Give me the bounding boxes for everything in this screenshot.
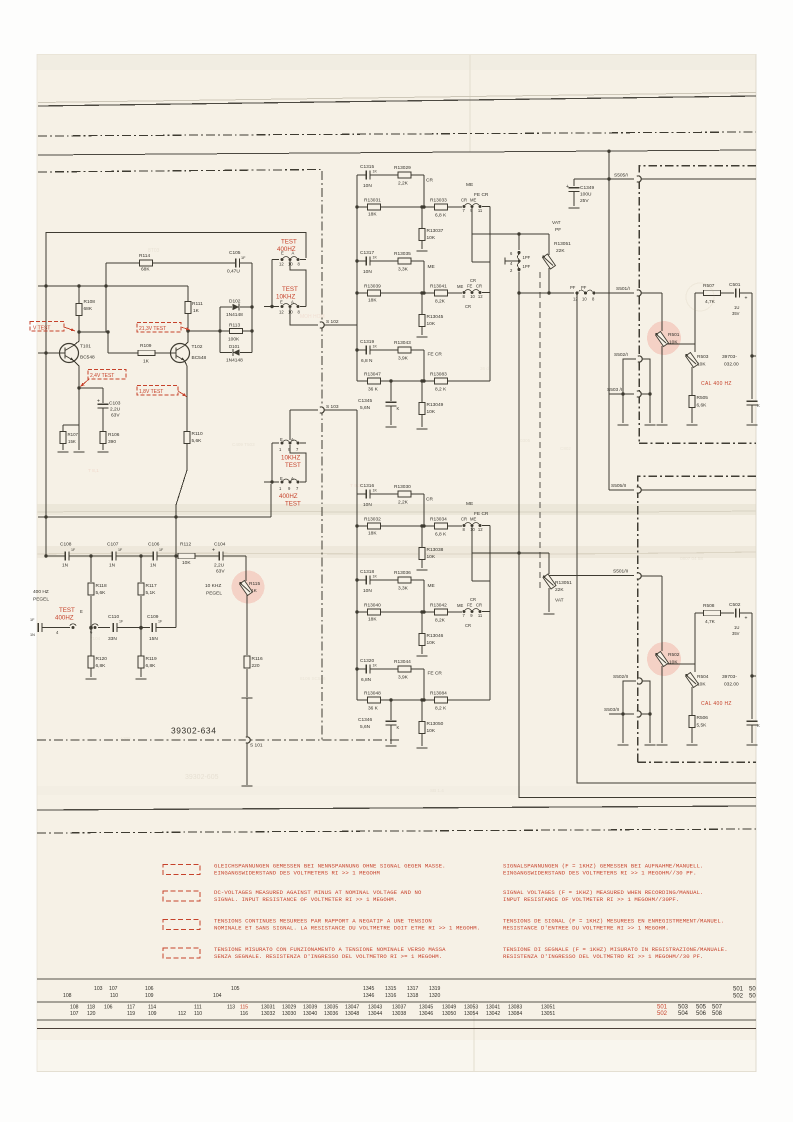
wire to PF 12-10-8 contacts — [519, 292, 574, 294]
svg-text:S 103: S 103 — [326, 404, 339, 410]
svg-text:CR: CR — [426, 497, 433, 503]
resistor R13041 — [435, 290, 448, 296]
svg-text:2,2K: 2,2K — [398, 181, 409, 187]
svg-text:R13049: R13049 — [427, 402, 444, 408]
node collector T101 — [78, 286, 80, 332]
svg-text:107: 107 — [70, 1011, 79, 1017]
svg-text:1N: 1N — [109, 563, 116, 569]
wire row corner C-D — [423, 580, 425, 612]
wire y517 rail — [38, 516, 271, 518]
svg-text:13038: 13038 — [392, 1011, 406, 1017]
svg-text:R13030: R13030 — [394, 484, 411, 490]
svg-text:FE CR: FE CR — [428, 671, 443, 677]
resistor R13039 — [357, 292, 462, 294]
svg-text:1N: 1N — [150, 563, 157, 569]
diode D101 — [232, 349, 240, 356]
PF contact chain 6-4-2 — [518, 234, 520, 250]
svg-text:R13050: R13050 — [427, 721, 444, 727]
svg-text:1K: 1K — [251, 588, 258, 594]
resistor R110 — [184, 432, 190, 444]
svg-text:10K: 10K — [427, 409, 436, 415]
svg-text:13048: 13048 — [345, 1011, 359, 1017]
svg-text:E: E — [280, 300, 283, 305]
resistor R13045 — [420, 291, 423, 294]
svg-text:SIGNAL. INPUT RESISTANCE OF VO: SIGNAL. INPUT RESISTANCE OF VOLTMETER RI… — [214, 896, 397, 903]
svg-text:50: 50 — [749, 987, 756, 993]
svg-text:117: 117 — [127, 1005, 135, 1011]
wire diode net to T102 collector — [188, 330, 220, 332]
svg-text:S501/I: S501/I — [616, 286, 630, 292]
svg-text:R13029: R13029 — [394, 165, 411, 171]
svg-text:106: 106 — [104, 1005, 113, 1011]
top rule line — [38, 96, 756, 106]
wire vertical to base node — [105, 263, 107, 332]
svg-text:1320: 1320 — [429, 993, 440, 999]
svg-text:R108: R108 — [84, 299, 96, 305]
resistor R13037 — [420, 205, 423, 208]
resistor R13032 — [357, 525, 462, 527]
svg-text:100K: 100K — [228, 337, 240, 343]
wire T101 base — [38, 352, 60, 354]
svg-text:TEST: TEST — [285, 462, 301, 469]
svg-text:R505: R505 — [697, 395, 709, 401]
ghost circle — [686, 283, 714, 311]
wire T101 collector — [74, 332, 80, 346]
resistor R113 — [230, 328, 243, 333]
svg-text:10K: 10K — [427, 321, 436, 327]
svg-text:5,6K: 5,6K — [192, 438, 203, 444]
svg-text:13051: 13051 — [541, 1011, 555, 1017]
svg-text:R13045: R13045 — [427, 314, 444, 320]
svg-text:S 102: S 102 — [326, 319, 339, 325]
svg-text:506: 506 — [696, 1011, 707, 1017]
svg-text:E: E — [281, 251, 284, 256]
svg-text:104: 104 — [213, 993, 222, 999]
vertical fold line top — [469, 55, 471, 152]
svg-text:25V: 25V — [580, 198, 589, 204]
svg-text:15N: 15N — [149, 636, 158, 642]
svg-text:NOMINALE ET SANS SIGNAL. LA RE: NOMINALE ET SANS SIGNAL. LA RESISTANCE D… — [214, 924, 480, 931]
svg-text:1F: 1F — [30, 618, 35, 622]
wire R501 wiper to R503 — [666, 343, 695, 345]
svg-text:5,6K: 5,6K — [96, 590, 107, 596]
svg-text:ME: ME — [428, 583, 435, 589]
resistor R120 — [90, 628, 92, 657]
svg-text:K: K — [757, 723, 760, 728]
svg-text:R13039: R13039 — [364, 284, 381, 290]
svg-text:C1345: C1345 — [358, 398, 372, 404]
resistor R114 — [140, 260, 153, 266]
svg-text:7104: 7104 — [90, 636, 101, 641]
resistor R117 — [140, 556, 142, 582]
svg-text:C105: C105 — [229, 250, 241, 256]
svg-text:114: 114 — [148, 1005, 156, 1011]
wire PF12 down to bottom rail — [577, 293, 756, 783]
svg-text:R13084: R13084 — [430, 691, 447, 697]
wire filter output II — [471, 526, 473, 582]
top rule faint companion — [38, 93, 756, 103]
svg-text:400 HZ: 400 HZ — [33, 589, 49, 595]
svg-text:8T03: 8T03 — [148, 248, 160, 254]
svg-text:113: 113 — [227, 1005, 235, 1011]
svg-text:R106: R106 — [108, 432, 120, 438]
switch contacts row D I — [463, 291, 466, 294]
svg-text:501: 501 — [657, 1005, 668, 1011]
switch contacts row D II — [463, 610, 466, 613]
capacitor C103 — [79, 387, 103, 389]
potentiometer R501 — [647, 321, 681, 355]
wire to S501/II — [549, 575, 634, 577]
svg-text:502: 502 — [657, 1011, 668, 1017]
svg-text:8106 SC546: 8106 SC546 — [300, 676, 326, 681]
capacitor to ground right II — [746, 721, 758, 725]
svg-text:10 KHZ: 10 KHZ — [205, 583, 221, 589]
svg-text:ME: ME — [470, 517, 476, 522]
svg-text:13053: 13053 — [464, 1005, 478, 1011]
svg-text:S 101: S 101 — [250, 743, 263, 749]
svg-text:8,2K: 8,2K — [435, 299, 446, 305]
legend box row 3 — [163, 920, 200, 930]
svg-text:EINGANGSWIDERSTAND DES VOLTMET: EINGANGSWIDERSTAND DES VOLTMETERS RI >> … — [503, 869, 697, 876]
resistor R111 — [187, 286, 189, 342]
svg-text:R13042: R13042 — [430, 603, 447, 609]
svg-text:R13043: R13043 — [394, 340, 411, 346]
wire S505/I row — [574, 178, 634, 180]
switch 10KHZ TEST lower — [289, 410, 291, 440]
svg-text:1316: 1316 — [385, 993, 396, 999]
svg-text:S501/II: S501/II — [613, 569, 628, 575]
svg-text:100U: 100U — [580, 192, 592, 198]
svg-text:18K: 18K — [368, 298, 377, 304]
svg-text:13050: 13050 — [442, 1011, 456, 1017]
svg-text:C106: C106 — [148, 542, 160, 548]
svg-text:S505/I: S505/I — [614, 173, 628, 179]
svg-text:CR: CR — [470, 597, 476, 602]
resistor R13029 — [398, 172, 411, 178]
svg-text:1U: 1U — [734, 305, 739, 310]
svg-text:10: 10 — [288, 310, 293, 315]
svg-text:6,8K: 6,8K — [146, 663, 157, 669]
svg-text:109: 109 — [148, 1011, 157, 1017]
svg-text:13084: 13084 — [508, 1011, 522, 1017]
CAL unit I dash-dot box — [639, 166, 756, 444]
svg-text:33N: 33N — [108, 636, 117, 642]
svg-text:103: 103 — [94, 986, 103, 992]
capacitor C1316 — [357, 493, 424, 495]
svg-text:2,2U: 2,2U — [214, 563, 225, 569]
wire filter bus left I — [356, 175, 358, 381]
svg-text:10K: 10K — [669, 340, 678, 346]
svg-text:13054: 13054 — [464, 1011, 478, 1017]
potentiometer R502 — [647, 642, 681, 676]
svg-text:PF: PF — [570, 285, 576, 290]
svg-text:12: 12 — [478, 527, 483, 532]
node S505/II — [609, 489, 634, 491]
svg-text:PEGEL: PEGEL — [33, 597, 49, 603]
svg-text:505: 505 — [696, 1005, 707, 1011]
svg-text:6,6K: 6,6K — [697, 403, 708, 409]
wire filter bus right II — [489, 526, 491, 701]
svg-text:504: 504 — [678, 1011, 689, 1017]
svg-text:118: 118 — [87, 1005, 95, 1011]
svg-text:FE: FE — [467, 284, 473, 289]
capacitor C1317 — [357, 260, 424, 262]
svg-text:3,9K: 3,9K — [398, 675, 409, 681]
svg-text:10N: 10N — [363, 183, 372, 189]
wire C501 right branch — [740, 292, 752, 294]
svg-text:13036: 13036 — [324, 1011, 338, 1017]
svg-text:10N: 10N — [363, 588, 372, 594]
svg-text:68K: 68K — [84, 306, 93, 312]
capacitor stub left edge — [38, 623, 42, 633]
wire lower switch interlink — [271, 443, 273, 482]
svg-text:8,2K: 8,2K — [435, 618, 446, 624]
svg-text:36 K: 36 K — [368, 706, 379, 712]
wire row corner A-B — [423, 175, 425, 207]
resistor R13046 — [420, 610, 423, 613]
svg-text:R13035: R13035 — [394, 251, 411, 257]
wire filter bus right I — [489, 207, 491, 382]
svg-text:C104: C104 — [214, 542, 226, 548]
resistor R13034 — [435, 523, 448, 529]
potentiometer R13051 II — [548, 553, 550, 574]
resistor R116 — [246, 595, 248, 655]
node S503/I — [609, 393, 634, 395]
svg-text:R113: R113 — [229, 323, 240, 329]
svg-text:390: 390 — [108, 439, 116, 445]
switch TEST 10KHZ upper — [264, 306, 279, 308]
wire C502 right branch — [740, 612, 752, 614]
node S501/I — [637, 290, 641, 296]
capacitor C502 — [721, 612, 734, 614]
resistor R13031 — [357, 206, 462, 208]
svg-text:400HZ: 400HZ — [55, 615, 74, 622]
wire top rail to switch — [46, 233, 306, 259]
resistor R506 — [689, 716, 695, 728]
legend box row 2 — [163, 891, 200, 901]
svg-text:11: 11 — [478, 208, 483, 213]
resistor R112 — [178, 553, 195, 558]
svg-text:R13048: R13048 — [364, 691, 381, 697]
resistor R13035 — [398, 258, 411, 264]
svg-text:13031: 13031 — [261, 1005, 275, 1011]
svg-text:C1346: C1346 — [358, 717, 372, 723]
svg-text:6,8 N: 6,8 N — [361, 358, 373, 364]
svg-text:112: 112 — [178, 1011, 186, 1017]
svg-text:400HZ: 400HZ — [279, 493, 298, 500]
svg-text:13035: 13035 — [324, 1005, 338, 1011]
svg-text:1345: 1345 — [363, 986, 374, 992]
PF contact group 12-10-8 — [576, 292, 579, 295]
svg-text:+: + — [745, 296, 748, 302]
test label 21,3V TEST — [137, 323, 181, 333]
svg-text:ME: ME — [457, 603, 463, 608]
svg-text:R120: R120 — [96, 656, 108, 662]
wire emitter rail lower — [176, 444, 187, 628]
node S502/II — [638, 678, 642, 684]
svg-text:10K: 10K — [427, 554, 436, 560]
svg-text:106: 106 — [145, 986, 154, 992]
resistor R13083 — [435, 378, 448, 384]
fold crease bands — [37, 504, 756, 515]
svg-text:VAT: VAT — [555, 598, 564, 604]
capacitor C1349 — [573, 179, 575, 186]
wire row corner C-D — [423, 261, 425, 293]
svg-text:10: 10 — [582, 297, 587, 302]
svg-text:E: E — [80, 609, 83, 614]
svg-text:1K: 1K — [373, 170, 378, 174]
svg-text:18K: 18K — [368, 531, 377, 537]
resistor R508 — [695, 612, 703, 614]
wire row corner E-F — [423, 350, 425, 381]
svg-text:35V: 35V — [732, 631, 740, 636]
svg-text:63V: 63V — [111, 413, 120, 419]
svg-text:105: 105 — [231, 986, 240, 992]
svg-text:A: A — [291, 476, 294, 481]
svg-text:A: A — [292, 251, 295, 256]
svg-text:13041: 13041 — [486, 1005, 500, 1011]
svg-text:CR: CR — [426, 178, 433, 184]
potentiometer R504 — [686, 673, 699, 688]
resistor R13084 — [435, 697, 448, 703]
svg-text:INPUT RESISTANCE OF VOLTMETER: INPUT RESISTANCE OF VOLTMETER RI >> 1 ME… — [503, 896, 679, 903]
transistor T101 — [60, 344, 79, 363]
svg-text:2,2U: 2,2U — [110, 407, 121, 413]
wire filter I output to PF — [472, 233, 549, 235]
resistor R13048 — [357, 699, 490, 701]
middle block dashed border — [539, 272, 541, 590]
svg-text:ME: ME — [466, 501, 473, 507]
svg-text:+: + — [212, 548, 215, 554]
svg-text:R116: R116 — [252, 656, 263, 662]
capacitor C1346 — [389, 698, 392, 701]
svg-text:RESISTENZA D'INGRESSO DEL VOLT: RESISTENZA D'INGRESSO DEL VOLTMETRO RI >… — [503, 953, 704, 960]
svg-text:10: 10 — [470, 294, 475, 299]
svg-text:R13038: R13038 — [427, 547, 444, 553]
capacitor C106 — [153, 551, 157, 561]
resistor R13049 — [420, 379, 423, 382]
svg-text:1K: 1K — [373, 575, 378, 579]
table rule 1 — [37, 978, 756, 980]
test label 1,8V TEST — [137, 386, 178, 396]
svg-text:SB 1.4: SB 1.4 — [430, 788, 444, 793]
svg-text:13037: 13037 — [392, 1005, 406, 1011]
svg-text:1PF: 1PF — [523, 255, 531, 260]
svg-text:R115: R115 — [249, 581, 260, 587]
resistor R507 — [695, 292, 703, 294]
resistor R13043 — [398, 347, 411, 353]
svg-text:CR: CR — [461, 198, 467, 203]
svg-text:13029: 13029 — [282, 1005, 296, 1011]
svg-text:K: K — [397, 406, 400, 411]
svg-text:V TEST: V TEST — [33, 326, 50, 332]
svg-text:CR: CR — [470, 278, 476, 283]
svg-text:10K: 10K — [669, 660, 678, 666]
switch contacts row B II — [463, 524, 466, 527]
node S505/I — [637, 176, 641, 182]
svg-text:+: + — [745, 616, 748, 622]
svg-text:R119: R119 — [146, 656, 157, 662]
svg-text:13040: 13040 — [303, 1011, 317, 1017]
svg-text:C110: C110 — [108, 614, 119, 620]
wire T102 collector — [185, 342, 189, 346]
wire C105 to diode rail — [240, 262, 253, 264]
svg-text:111: 111 — [194, 1005, 202, 1011]
svg-text:0807 04 58: 0807 04 58 — [680, 556, 703, 561]
svg-text:109: 109 — [145, 993, 154, 999]
svg-text:PF: PF — [555, 227, 561, 233]
svg-text:R117: R117 — [146, 583, 157, 589]
svg-text:3,3K: 3,3K — [398, 586, 409, 592]
svg-text:D101: D101 — [229, 344, 240, 349]
svg-text:R13041: R13041 — [430, 284, 447, 290]
svg-text:63V: 63V — [216, 569, 225, 575]
wire base rail — [38, 285, 188, 287]
svg-text:C103: C103 — [109, 401, 121, 407]
svg-text:36 d: 36 d — [480, 366, 489, 371]
svg-text:R508: R508 — [703, 603, 715, 609]
transistor T102 — [171, 344, 190, 363]
svg-text:T 9.3: T 9.3 — [350, 483, 361, 489]
svg-text:+: + — [566, 184, 569, 190]
svg-text:6,8 K: 6,8 K — [435, 532, 447, 538]
svg-text:S502/II: S502/II — [613, 674, 628, 680]
capacitor C1320 — [357, 668, 424, 670]
svg-text:R13051: R13051 — [554, 241, 571, 247]
svg-text:VAT: VAT — [552, 220, 561, 226]
svg-text:3,3K: 3,3K — [398, 267, 409, 273]
svg-text:13043: 13043 — [368, 1005, 382, 1011]
node S503/II — [609, 713, 634, 715]
svg-text:39302-605: 39302-605 — [185, 774, 219, 781]
svg-text:1318: 1318 — [407, 993, 418, 999]
svg-text:1315: 1315 — [385, 986, 396, 992]
svg-text:R13040: R13040 — [364, 603, 381, 609]
wire T102 emitter rail — [185, 361, 188, 432]
bottom dash-dot rule — [37, 829, 756, 833]
svg-text:C1349: C1349 — [580, 185, 594, 191]
svg-text:R107: R107 — [68, 432, 79, 437]
svg-text:TEST: TEST — [59, 607, 75, 614]
svg-text:CR: CR — [461, 517, 467, 522]
svg-text:15K: 15K — [68, 439, 76, 444]
svg-text:220: 220 — [252, 663, 260, 669]
bottom rule line — [37, 806, 756, 810]
svg-text:22K: 22K — [555, 587, 564, 593]
svg-text:1319: 1319 — [429, 986, 440, 992]
svg-text:8,2 K: 8,2 K — [435, 706, 447, 712]
svg-text:C108: C108 — [60, 542, 72, 548]
svg-text:50: 50 — [749, 994, 756, 1000]
svg-text:502: 502 — [733, 994, 744, 1000]
svg-text:S503/II: S503/II — [604, 707, 619, 713]
capacitor C107 — [112, 551, 116, 561]
svg-text:T101: T101 — [80, 344, 91, 350]
svg-text:BC548: BC548 — [80, 355, 95, 361]
svg-text:CR: CR — [476, 284, 482, 289]
wire T101 emitter — [74, 361, 80, 451]
svg-text:13047: 13047 — [345, 1005, 359, 1011]
svg-text:116: 116 — [240, 1011, 248, 1017]
svg-text:13039: 13039 — [303, 1005, 317, 1011]
wire filter output I — [471, 207, 473, 263]
svg-text:10K: 10K — [427, 728, 436, 734]
svg-text:110: 110 — [110, 993, 118, 999]
svg-text:R503: R503 — [697, 354, 709, 360]
node S101 — [246, 698, 248, 737]
wire filter II output — [472, 552, 549, 554]
svg-text:1317: 1317 — [407, 986, 418, 992]
